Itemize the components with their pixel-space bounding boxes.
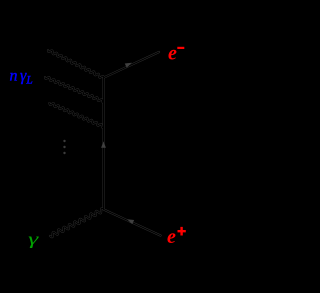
svg-text:γ: γ (28, 229, 40, 248)
ellipsis dots between photons (63, 140, 65, 154)
dark cores of lines (48, 50, 104, 78)
fermion line vertical (electron propagator) (102, 78, 104, 210)
photon line gamma_L 1 (wavy) (48, 50, 104, 78)
photon line gamma_L 2 (wavy) (45, 77, 103, 103)
arrow on e+ line (pointing up-left toward vertex) (127, 219, 134, 224)
label gamma (green, bottom left) (28, 229, 40, 248)
photon gamma (wavy, incoming real photon) (50, 208, 104, 237)
fermion line e- outgoing (103, 52, 159, 78)
svg-text:e: e (168, 42, 177, 64)
superscript plus of e+ (178, 227, 186, 236)
svg-text:e: e (167, 226, 176, 248)
fermion line e+ outgoing (104, 210, 161, 236)
superscript minus of e- (177, 47, 184, 49)
photon line gamma_L 3 (wavy) (50, 103, 103, 128)
arrow on vertical fermion line (pointing up) (101, 141, 106, 147)
arrow on e- line (pointing up-right) (125, 63, 132, 68)
